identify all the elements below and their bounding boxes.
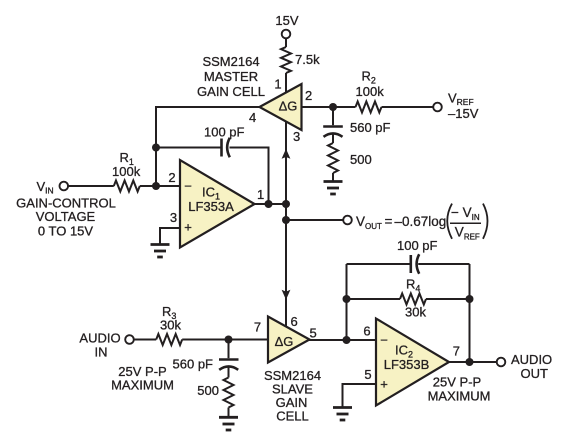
wire audio in to R3 [134,339,156,341]
gain cell U1 (SSM2164 master) [260,84,302,130]
resistor R1 100k [112,150,141,192]
label SSM2164 SLAVE GAIN CELL [264,368,321,424]
svg-text:5: 5 [310,326,317,341]
terminal Vref [433,91,478,122]
node slave out / R4 left [343,336,351,344]
wire 500 to ground [332,173,334,182]
svg-text:VOUT: VOUT [356,214,382,231]
wire pin 2 [156,185,180,187]
terminal Vin [37,179,69,196]
svg-text:ΔG: ΔG [279,99,298,114]
svg-text:100 pF: 100 pF [204,125,245,140]
svg-text:5: 5 [364,367,371,382]
node Vout tap [282,216,290,224]
svg-text:−: − [184,179,192,194]
svg-text:VREF: VREF [448,91,474,108]
svg-text:−: − [380,333,388,348]
svg-text:3: 3 [293,129,300,144]
terminal audio out [497,352,552,381]
svg-text:6: 6 [363,324,370,339]
node feedback/output [265,200,273,208]
node output/feedback [466,358,474,366]
svg-text:MAXIMUM: MAXIMUM [111,378,174,393]
svg-text:500: 500 [197,383,219,398]
svg-text:6: 6 [291,314,298,329]
svg-text:0 TO 15V: 0 TO 15V [38,224,93,239]
wire Vin to R1 [67,185,114,187]
svg-text:VOLTAGE: VOLTAGE [36,209,96,224]
svg-text:R4: R4 [406,277,420,294]
node Vin/R1/pin2 [152,182,160,190]
svg-text:AUDIO: AUDIO [511,352,552,367]
wire IC2 pin 5 to ground [343,384,377,408]
wire Vout tap [286,219,343,221]
svg-text:OUT: OUT [521,366,549,381]
label SSM2164 MASTER GAIN CELL [197,54,265,99]
resistor R2 100k [356,69,385,113]
resistor R3 30k [156,304,182,345]
svg-text:1: 1 [257,187,264,202]
svg-text:100k: 100k [112,164,141,179]
label 25V P-P MAXIMUM (output) [428,375,491,404]
svg-text:1: 1 [274,77,281,92]
gain cell U3 (SSM2164 slave) [268,317,310,363]
svg-text:7.5k: 7.5k [295,52,320,67]
wire to R4 left [347,298,401,300]
svg-text:4: 4 [249,110,256,125]
wire R4 loop left vertical [346,264,348,340]
resistor 500 (master) [328,143,372,173]
wire R4 right [426,298,470,300]
svg-text:AUDIO: AUDIO [79,331,120,346]
resistor 500 (slave) [197,378,233,408]
capacitor 560 pF (slave) [173,340,239,372]
svg-text:=: = [385,214,393,229]
svg-text:MAXIMUM: MAXIMUM [428,389,491,404]
svg-text:GAIN CELL: GAIN CELL [197,84,265,99]
wire feedback upper [156,147,222,149]
wire cap to 500 (slave) [228,367,230,378]
capacitor 560 pF (master) [323,120,390,137]
wire IC1 output [254,203,286,205]
label gain-control voltage [16,196,116,239]
ground IC2 pin5 [333,408,352,421]
svg-text:LF353A: LF353A [188,199,234,214]
label Vout formula [356,204,488,242]
op-amp U2 IC1 LF353A [180,160,255,248]
ground (slave RC) [219,417,238,430]
wire node to C 560pF [332,107,334,125]
svg-text:560 pF: 560 pF [173,357,214,372]
svg-text:30k: 30k [405,305,426,320]
wire node to slave pin 7 [229,339,269,341]
svg-text:500: 500 [350,152,372,167]
svg-text:560 pF: 560 pF [350,120,391,135]
svg-text:− VIN: − VIN [451,205,480,222]
terminal Vout [343,216,352,225]
node feedback tap [152,144,160,152]
capacitor C1 100 pF [204,125,245,158]
svg-text:25V P-P: 25V P-P [433,375,481,390]
svg-text:7: 7 [453,344,460,359]
svg-text:VIN: VIN [37,179,54,196]
wire R4 loop top [347,263,411,265]
wire 7.5k to master pin 1 [285,73,287,94]
wire 500 to ground (slave) [228,408,230,418]
terminal 15V [275,13,298,38]
svg-text:3: 3 [170,210,177,225]
wire feedback to output [230,148,269,205]
wire pin 3 to ground [160,228,180,245]
op-amp U4 IC2 LF353B [376,319,449,406]
wire master pin 2 [302,106,334,108]
svg-text:100 pF: 100 pF [397,238,438,253]
node R4 right [466,295,474,303]
resistor 7.5k [281,47,320,73]
wire master pin3 to slave pin6 [285,121,287,327]
wire 15V to R 7.5k [285,38,287,47]
wire cap to 500 [332,134,334,143]
node R2/C 560pF [329,103,337,111]
svg-text:VREF: VREF [455,225,480,242]
ground IC1 pin3 [151,245,170,258]
wire cap to right vertical [418,263,469,265]
svg-text:2: 2 [305,88,312,103]
capacitor 100 pF (slave feedback) [397,238,438,274]
svg-text:MASTER: MASTER [204,69,258,84]
wire R3 to node [182,339,228,341]
node R4 left [343,295,351,303]
svg-text:SSM2164: SSM2164 [202,54,259,69]
wire master pin 4 to left rail [156,107,260,186]
arrow down (current into slave) [282,290,291,300]
node 560pF tap [225,336,233,344]
svg-text:CELL: CELL [276,409,309,424]
node output/main rail [282,200,290,208]
wire R1 to pin2 node [140,185,156,187]
label 25V P-P MAXIMUM (input) [111,364,174,393]
svg-text:ΔG: ΔG [275,334,294,349]
terminal audio in [79,331,133,360]
svg-text:15V: 15V [275,13,298,28]
svg-text:7: 7 [254,320,261,335]
arrow up (current into master) [282,149,291,159]
svg-text:–15V: –15V [448,106,479,121]
svg-text:+: + [184,220,192,235]
wire R4 loop right vertical [469,264,471,362]
ground (master RC) [324,182,343,195]
svg-text:LF353B: LF353B [384,357,430,372]
wire IC2 output [449,361,497,363]
wire slave pin 5 to IC2 pin 6 [309,339,376,341]
svg-text:2: 2 [168,170,175,185]
svg-text:30k: 30k [160,318,181,333]
svg-text:R2: R2 [362,69,376,86]
svg-text:100k: 100k [356,84,385,99]
resistor R4 30k [400,277,426,320]
svg-text:–0.67log: –0.67log [395,214,447,229]
wire R2 to Vref [382,106,434,108]
wire node to R2 [333,106,356,108]
svg-text:IN: IN [95,345,108,360]
svg-text:+: + [380,377,388,392]
